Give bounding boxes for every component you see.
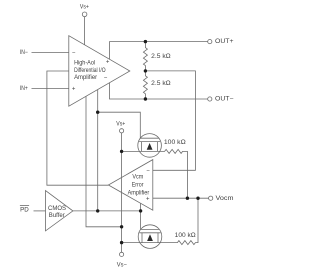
svg-text:CMOS: CMOS bbox=[48, 206, 66, 212]
svg-text:OUT+: OUT+ bbox=[215, 39, 234, 45]
svg-text:−: − bbox=[146, 168, 150, 174]
svg-text:−: − bbox=[104, 76, 108, 82]
svg-text:Buffer: Buffer bbox=[49, 213, 65, 219]
svg-text:−: − bbox=[72, 51, 76, 57]
svg-text:Vs+: Vs+ bbox=[116, 121, 125, 127]
svg-text:100 kΩ: 100 kΩ bbox=[164, 140, 186, 146]
svg-text:2.5 kΩ: 2.5 kΩ bbox=[151, 54, 171, 60]
svg-text:Vcm: Vcm bbox=[132, 175, 143, 181]
svg-text:100 kΩ: 100 kΩ bbox=[175, 233, 197, 239]
svg-text:Amplifier: Amplifier bbox=[74, 75, 97, 81]
svg-text:Error: Error bbox=[132, 182, 144, 188]
svg-text:+: + bbox=[72, 87, 76, 93]
svg-text:+: + bbox=[146, 196, 150, 202]
svg-text:Differential I/O: Differential I/O bbox=[74, 68, 106, 74]
svg-text:Vs−: Vs− bbox=[117, 262, 127, 268]
svg-text:Vs+: Vs+ bbox=[80, 4, 89, 10]
svg-text:Vocm: Vocm bbox=[216, 196, 234, 202]
svg-text:IN+: IN+ bbox=[20, 86, 28, 92]
svg-text:2.5 kΩ: 2.5 kΩ bbox=[151, 81, 171, 87]
svg-text:+: + bbox=[106, 60, 110, 66]
svg-text:High-Aol: High-Aol bbox=[74, 61, 95, 67]
svg-text:IN−: IN− bbox=[20, 50, 28, 56]
svg-text:OUT−: OUT− bbox=[215, 96, 234, 102]
svg-text:PD: PD bbox=[20, 207, 29, 213]
